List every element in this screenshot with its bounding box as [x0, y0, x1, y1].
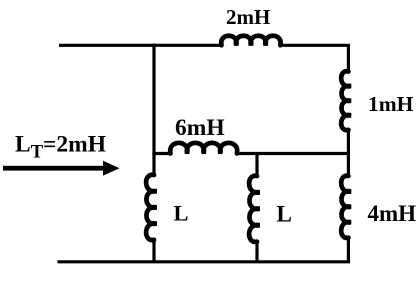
svg-text:LT=2mH: LT=2mH — [15, 131, 106, 162]
svg-text:6mH: 6mH — [175, 115, 225, 141]
svg-text:4mH: 4mH — [368, 201, 417, 226]
svg-text:L: L — [174, 201, 189, 226]
svg-text:1mH: 1mH — [368, 92, 414, 116]
svg-text:L: L — [277, 202, 292, 227]
svg-text:2mH: 2mH — [226, 5, 270, 29]
